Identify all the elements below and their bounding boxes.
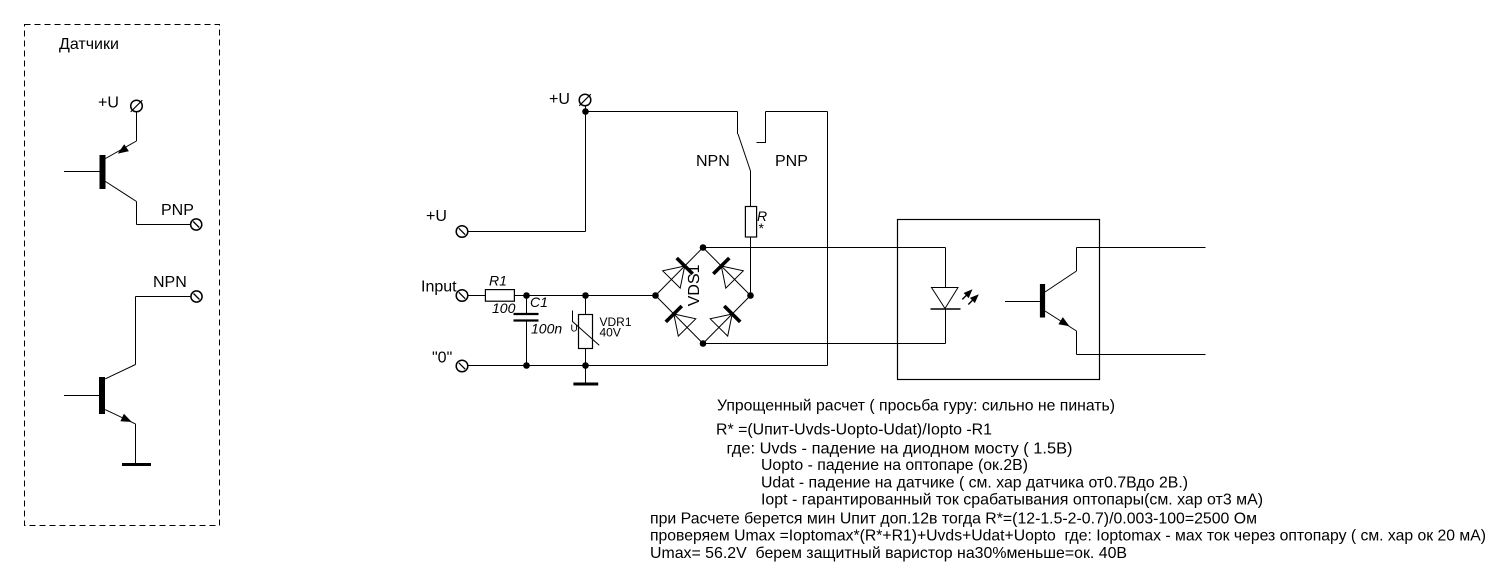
wire top rail to NPN switch contact [586,111,738,113]
wire terminal to rail [585,106,587,111]
transistor NPN sensor: emitter arrow [120,414,131,422]
label VDS1 [688,265,699,306]
junction bridge top node [700,244,707,251]
wire emitter out [1077,354,1206,356]
switch blade (NPN position) [738,134,751,171]
wire collector out [1077,247,1206,249]
wire bridge bottom to opto [703,343,946,345]
svg-text:Umax= 56.2V берем защитный ва: Umax= 56.2V берем защитный варистор на30… [650,545,1127,562]
terminal PNP output [191,219,202,230]
wire PNP contact stub [757,112,766,143]
wire R* to bridge right node [750,237,752,296]
junction bridge left node [652,292,659,299]
phototransistor emitter arrow [1058,317,1069,326]
LED light arrow 2 [968,294,979,304]
diode D3 (bottom to left) [666,306,696,336]
wire emitter to +U terminal [136,112,138,141]
transistor NPN sensor: base lead [64,395,99,397]
transistor NPN sensor: collector diagonal [105,365,135,379]
svg-text:U: U [571,324,578,335]
wire +U horizontal to left terminal [468,231,586,233]
junction VDR node [582,292,589,299]
terminal +U (left) [456,226,468,238]
transistor PNP sensor: emitter diagonal [106,141,137,159]
wire PNP contact rail [766,111,828,113]
svg-text:+U: +U [426,208,447,225]
wire bridge top to opto [703,247,946,249]
terminal "0" [456,360,468,372]
phototransistor base lead [1005,301,1040,303]
LED light arrow 1 [962,289,972,299]
svg-text:PNP: PNP [775,153,808,170]
svg-text:где: Uvds - падение на диодном: где: Uvds - падение на диодном мосту ( 1… [727,440,1073,457]
svg-text:NPN: NPN [153,274,187,291]
ground (mid) [573,383,598,386]
LED triangle [932,288,959,309]
resistor R1 body [485,290,514,302]
bridge VDS1: edge bottom-left [656,296,704,344]
svg-text:C1: C1 [530,294,548,310]
phototransistor base bar [1040,284,1045,318]
transistor PNP sensor: collector diagonal [106,182,137,202]
wire NPN contact stub [737,112,739,135]
bridge VDS1: edge left-top [656,248,704,296]
ground (sensor NPN) [122,463,151,466]
capacitor C1: top plate [514,313,539,315]
varistor VDR1: body [579,315,593,349]
wire +U vertical [585,112,587,232]
terminal Input [456,290,468,302]
svg-text:"0": "0" [432,350,452,367]
wire R1 to bridge left node [514,295,655,297]
junction bridge right node [747,292,754,299]
junction +U node [582,108,589,115]
transistor NPN sensor: base bar [99,377,105,414]
wire to PNP terminal [137,224,191,226]
svg-text:100: 100 [492,300,516,316]
capacitor C1: bottom plate [514,319,539,321]
transistor PNP sensor: base bar [100,155,106,189]
wire right rail down to 0 [827,112,829,366]
junction C1 node [523,292,530,299]
svg-text:+U: +U [549,91,570,108]
svg-text:Input: Input [421,279,457,296]
transistor NPN sensor: emitter diagonal [105,410,135,424]
svg-text:Uopto - падение на оптопаре (о: Uopto - падение на оптопаре (ок.2В) [761,457,1028,474]
diode D2 (right to top) [713,258,743,288]
svg-text:PNP: PNP [161,202,194,219]
bridge VDS1: edge right-top [703,248,751,296]
transistor PNP sensor: emitter arrow [118,144,129,153]
wire NPN collector vertical [135,297,137,365]
resistor R* body [745,207,756,238]
junction C1 on 0 rail [523,362,530,369]
svg-text:Упрощенный расчет ( просьба гу: Упрощенный расчет ( просьба гуру: сильно… [717,398,1115,415]
phototransistor collector vertical [1076,248,1078,272]
svg-text:Датчики: Датчики [59,36,119,53]
dashed enclosure box Датчики [25,25,220,526]
wire collector down [136,202,138,225]
varistor VDR1: diagonal stroke [573,311,600,346]
bridge VDS1: edge bottom-right [703,296,751,344]
wire NPN terminal left [136,296,191,298]
varistor VDR1: top lead [585,296,587,315]
terminal +U (sensor) [131,100,143,112]
capacitor C1: bottom lead [526,322,528,366]
diode D4 (bottom to right) [710,306,740,336]
wire emitter down to ground [135,424,137,464]
phototransistor emitter diagonal [1045,311,1077,331]
varistor VDR1: bottom lead [585,349,587,366]
phototransistor emitter vertical [1076,331,1078,355]
terminal +U (top) [579,94,591,106]
junction bridge bottom node [700,340,707,347]
wire switch to R* [750,171,752,207]
capacitor C1: top lead [526,296,528,314]
svg-text:R* =(Uпит-Uvds-Uopto-Udat)/Iop: R* =(Uпит-Uvds-Uopto-Udat)/Iopto -R1 [716,421,992,438]
transistor PNP sensor: base lead [64,171,100,173]
svg-text:NPN: NPN [696,153,730,170]
phototransistor collector diagonal [1045,271,1077,292]
LED cathode bar [931,308,961,310]
svg-text:Iopt - гарантированный ток сра: Iopt - гарантированный ток срабатывания … [761,491,1263,508]
svg-text:100n: 100n [531,321,562,337]
ground lead (mid) [585,366,587,384]
svg-text:40V: 40V [600,326,621,340]
junction VDR1 on 0 rail [582,362,589,369]
svg-text:Udat - падение на датчике ( см: Udat - падение на датчике ( см. хар датч… [761,474,1188,491]
svg-text:*: * [759,220,765,236]
svg-text:+U: +U [98,95,119,112]
diode D1 (left to top) [663,258,693,288]
optocoupler U1 box [898,220,1100,380]
wire input to R1 [468,295,485,297]
LED cathode lead [945,309,947,344]
svg-text:R1: R1 [489,273,507,289]
terminal NPN output [191,291,202,302]
LED anode lead [945,248,947,288]
svg-text:проверяем Umax =Ioptomax*(R*+R: проверяем Umax =Ioptomax*(R*+R1)+Uvds+Ud… [650,528,1486,545]
svg-text:при Расчете берется мин Uпит д: при Расчете берется мин Uпит доп.12в тог… [650,511,1257,528]
wire 0 rail [468,365,828,367]
